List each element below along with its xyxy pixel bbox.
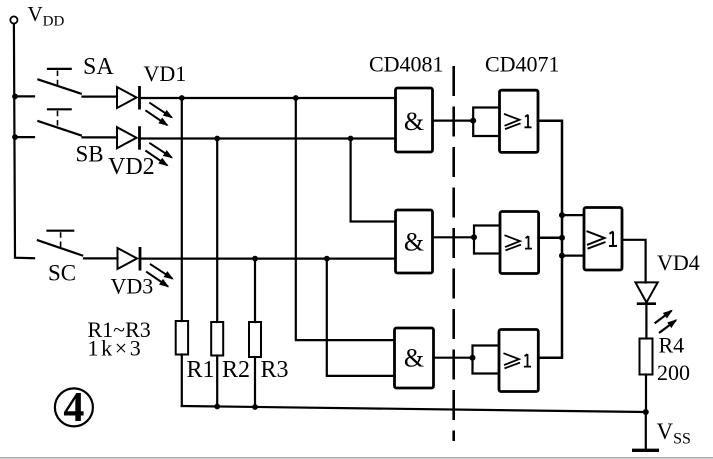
wire: SA to VD1	[83, 95, 118, 97]
wire: row B (VD2 to AND1 input B)	[140, 137, 396, 139]
node: row A / R1 column	[179, 95, 185, 101]
node: OR2 input junction	[471, 234, 477, 240]
node: row C / AND3 column	[324, 256, 330, 262]
svg-text:R2: R2	[222, 357, 250, 383]
wire: row C to AND3 input B	[327, 259, 395, 376]
wire: R2 column	[216, 139, 218, 323]
node: row A / AND3 column	[293, 95, 299, 101]
figure number 4	[55, 385, 93, 431]
wire: R1 to bottom rail	[181, 355, 183, 407]
switch SB	[38, 109, 80, 135]
svg-text:4: 4	[63, 385, 84, 431]
svg-text:R3: R3	[261, 357, 289, 383]
wire: OR1 input tie bracket	[473, 108, 499, 137]
wire: SC to VD3	[84, 257, 118, 259]
wire: rail middle segment	[561, 215, 564, 256]
resistor R3	[249, 322, 261, 357]
svg-text:SC: SC	[48, 261, 76, 286]
wire: bottom rail VSS	[182, 406, 646, 412]
node: OR1 input junction	[470, 118, 476, 124]
svg-text:VDD: VDD	[28, 2, 65, 30]
wire: AND1 output	[433, 119, 474, 121]
node: bus / SA tap	[12, 94, 18, 100]
diode VD3 (LED)	[118, 247, 173, 287]
wire: OR1 output to rail	[538, 121, 562, 215]
wire: row B to AND2 input A	[351, 139, 396, 222]
node: rail / R2	[214, 404, 220, 410]
svg-text:SB: SB	[76, 142, 104, 167]
OR gate U2C (CD4071)	[499, 330, 538, 392]
ground	[632, 449, 659, 452]
node: rail / R4 and ground	[643, 409, 649, 415]
wire: VD4 to R4	[645, 304, 647, 339]
photo bottom edge	[0, 457, 713, 459]
wire: R4 to bottom rail	[645, 375, 647, 413]
svg-text:VSS: VSS	[657, 419, 691, 448]
diode VD1 (LED)	[117, 86, 172, 125]
wire: OR3 input tie bracket	[473, 346, 500, 374]
svg-text:&: &	[404, 228, 424, 257]
switch SC	[38, 231, 82, 256]
wire: R2 to bottom rail	[216, 356, 218, 407]
svg-text:&: &	[404, 107, 424, 136]
node: OR3 input junction	[470, 355, 476, 361]
node: rail / OR2 output	[559, 235, 565, 241]
wire: R3 to bottom rail	[254, 357, 256, 407]
wire: R3 column	[254, 259, 256, 322]
wire: AND2 output	[433, 236, 475, 238]
svg-text:CD4071: CD4071	[485, 52, 560, 77]
svg-text:1k×3: 1k×3	[88, 336, 144, 361]
node: row B / R2 column	[214, 136, 220, 142]
wire: SB to VD2	[83, 136, 118, 138]
node: rail / R3	[252, 404, 258, 410]
OR gate U2B (CD4071)	[500, 212, 539, 274]
svg-text:VD2: VD2	[108, 154, 155, 180]
wire: OR2 output	[539, 236, 562, 239]
svg-text:R1: R1	[187, 357, 215, 383]
resistor R2	[211, 322, 223, 356]
wire: OR4 output to VD4	[622, 240, 646, 283]
svg-text:VD4: VD4	[657, 250, 700, 275]
svg-text:R4: R4	[659, 333, 685, 358]
diode VD2 (LED)	[117, 126, 172, 165]
wire: OR3 output up to rail	[538, 256, 562, 358]
wire: OR2 input tie bracket	[474, 226, 500, 254]
wire: row C (VD3 to AND2 input B)	[140, 258, 396, 260]
OR gate U2A (CD4071)	[500, 90, 539, 152]
AND gate U1C (CD4081)	[395, 328, 434, 388]
wire: AND3 output	[434, 357, 473, 359]
node: rail / OR4 input B	[559, 253, 565, 259]
wire: rail to OR4 input B	[562, 255, 584, 257]
node: rail / OR4 input A	[559, 212, 565, 218]
dashed separator line	[452, 66, 455, 441]
OR gate U2D (CD4071 output gate)	[584, 208, 622, 271]
svg-text:200: 200	[657, 360, 690, 385]
AND gate U1B (CD4081)	[396, 210, 433, 273]
node: bus / SB tap	[12, 134, 18, 140]
AND gate U1A (CD4081)	[396, 88, 433, 152]
wire: R1 column	[181, 98, 183, 321]
svg-text:VD3: VD3	[111, 274, 154, 299]
diode VD4 (LED)	[635, 282, 676, 333]
svg-text:CD4081: CD4081	[369, 52, 444, 77]
resistor R4	[640, 339, 653, 375]
switch SA	[38, 69, 80, 94]
node: row C / R3 column	[252, 256, 258, 262]
svg-text:SA: SA	[83, 54, 114, 80]
wire: VDD left bus down to SC row	[14, 24, 34, 259]
svg-text:VD1: VD1	[144, 61, 187, 86]
wire: bus to switch SA	[15, 95, 34, 97]
wire: row A (VD1 to AND1 input A)	[140, 97, 396, 99]
wire: row A to AND3 input A	[296, 98, 395, 340]
resistor R1	[176, 321, 188, 355]
node: row B / AND2 column	[348, 136, 354, 142]
svg-text:&: &	[404, 344, 424, 373]
wire: rail to OR4 input A	[562, 214, 584, 216]
wire: ground stub	[645, 412, 647, 448]
power terminal VDD	[10, 16, 17, 23]
wire: bus to switch SB	[15, 136, 34, 138]
